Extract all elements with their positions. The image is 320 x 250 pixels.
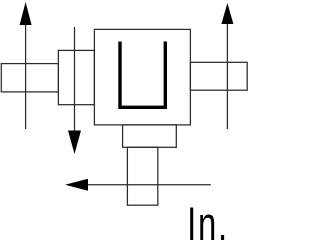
svg-text:In.: In.: [187, 197, 229, 250]
main housing box: [94, 29, 190, 125]
arrowhead: down arrow: [68, 131, 81, 155]
wire: down-arrow shaft: [74, 27, 76, 131]
wire: horizontal left-arrow line: [87, 184, 211, 186]
wire: left up-arrow shaft: [25, 25, 27, 129]
arrowhead: left arrow: [65, 179, 88, 191]
arrowhead: right up arrow: [221, 3, 233, 24]
right port block: [190, 62, 247, 90]
left flange: [58, 50, 94, 104]
arrowhead: left up arrow: [20, 2, 32, 25]
bottom stem block: [127, 147, 157, 205]
U bracket inside housing: [120, 42, 165, 108]
bottom flange: [123, 125, 177, 147]
wire: right up-arrow shaft: [226, 24, 228, 129]
left shaft block: [1, 64, 58, 92]
